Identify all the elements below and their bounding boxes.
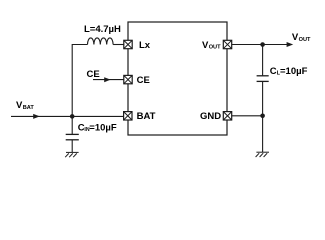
wire pin GND to node C bbox=[232, 115, 263, 117]
wire inductor to pin Lx bbox=[113, 44, 124, 46]
svg-text:GND: GND bbox=[200, 111, 221, 122]
node B (junction dot at VOUT / CL) bbox=[260, 42, 265, 47]
pin label VOUT bbox=[202, 40, 221, 51]
value label CL=10uF bbox=[270, 66, 308, 77]
capacitor CIN bbox=[66, 134, 79, 139]
wire node A up and right to inductor bbox=[72, 45, 87, 117]
wire node A to pin BAT bbox=[72, 115, 123, 117]
svg-text:BAT: BAT bbox=[23, 105, 35, 111]
svg-text:=10µF: =10µF bbox=[280, 66, 308, 77]
capacitor CL bbox=[257, 76, 269, 82]
svg-text:L=4.7µH: L=4.7µH bbox=[84, 24, 121, 35]
svg-text:=10µF: =10µF bbox=[89, 122, 117, 133]
wire VBAT input to node A bbox=[11, 115, 72, 117]
svg-text:OUT: OUT bbox=[299, 37, 311, 43]
svg-text:OUT: OUT bbox=[209, 45, 221, 51]
pin BAT box bbox=[124, 112, 132, 120]
svg-text:Lx: Lx bbox=[139, 40, 151, 51]
pin GND box bbox=[223, 112, 231, 120]
wire CE input to pin CE bbox=[93, 79, 124, 81]
wire node A down to CIN bbox=[71, 116, 73, 134]
wire node B down to CL bbox=[262, 45, 264, 76]
inductor L1 bbox=[88, 38, 114, 45]
wire pin VOUT to node B and output arrow bbox=[232, 44, 288, 46]
wire node C to ground bbox=[262, 116, 264, 152]
svg-text:CE: CE bbox=[137, 75, 150, 86]
IC U1 body bbox=[128, 22, 227, 135]
value label CIN=10uF bbox=[78, 122, 117, 133]
node C (junction dot at GND / CL) bbox=[260, 114, 265, 119]
svg-text:BAT: BAT bbox=[137, 111, 156, 122]
arrow on VOUT wire bbox=[287, 42, 294, 47]
ground (right, below GND pin) bbox=[256, 152, 269, 157]
node A (junction dot at VBAT / BAT / CIN) bbox=[70, 114, 75, 119]
svg-text:CE: CE bbox=[87, 69, 100, 80]
wire CL down to node C bbox=[262, 81, 264, 115]
arrow on VBAT wire bbox=[33, 114, 40, 119]
pin CE box bbox=[124, 75, 132, 83]
pin Lx box bbox=[124, 40, 132, 48]
wire CIN to ground bbox=[71, 140, 73, 153]
net label VOUT (output) bbox=[292, 32, 311, 43]
net label VBAT bbox=[16, 100, 34, 111]
pin VOUT box bbox=[223, 40, 231, 48]
arrow on CE wire bbox=[104, 77, 110, 82]
ground (left, below CIN) bbox=[65, 152, 78, 157]
